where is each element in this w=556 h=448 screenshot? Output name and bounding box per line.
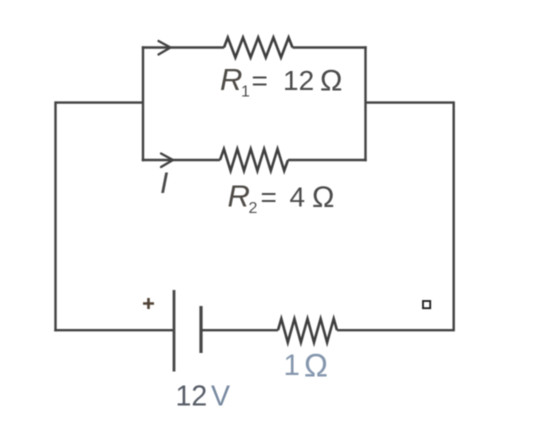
battery long plate (positive)	[173, 290, 176, 372]
svg-text:V: V	[211, 381, 230, 413]
wire: branch 1 left segment	[142, 46, 224, 48]
svg-text:12: 12	[176, 381, 208, 413]
current arrow on branch 1	[159, 41, 171, 55]
wire: top-left horizontal (node A to parallel-left rail)	[56, 101, 144, 103]
svg-text:2: 2	[249, 200, 258, 217]
label 12 V	[176, 381, 231, 413]
svg-text:1: 1	[284, 349, 300, 382]
svg-text:12: 12	[283, 65, 314, 96]
battery plus sign	[143, 298, 154, 309]
resistor R1 (zigzag)	[224, 38, 293, 58]
svg-text:R: R	[228, 179, 250, 214]
svg-text:=: =	[252, 65, 268, 96]
resistor 1 ohm (zigzag)	[278, 319, 337, 343]
wire: bottom-left segment (to battery)	[54, 329, 174, 331]
label R2 = 4 ohm	[228, 179, 335, 218]
current arrow on branch 2	[161, 154, 173, 168]
label R1 = 12 ohm	[220, 62, 342, 101]
node marker: small square	[423, 301, 430, 308]
svg-text:R: R	[220, 62, 242, 97]
resistor R2 (zigzag)	[220, 149, 288, 171]
wire: branch 1 right segment	[293, 46, 367, 48]
svg-text:1: 1	[241, 84, 250, 101]
wire: right outer vertical	[453, 101, 455, 331]
wire: parallel-section right vertical rail	[364, 46, 366, 161]
svg-text:Ω: Ω	[320, 65, 342, 98]
svg-text:I: I	[160, 167, 168, 200]
wire: top-right horizontal (parallel-right rail to node B)	[366, 101, 454, 103]
wire: branch 2 right segment	[288, 159, 367, 161]
wire: bottom-right segment	[337, 329, 453, 331]
wire: branch 2 left segment	[142, 159, 220, 161]
svg-text:4: 4	[290, 182, 306, 213]
wire: bottom-middle segment (battery to 1 ohm resistor)	[201, 329, 278, 331]
wire: left outer vertical	[54, 101, 56, 331]
wire: parallel-section left vertical rail	[142, 46, 144, 161]
battery short plate (negative)	[199, 306, 202, 353]
svg-text:=: =	[261, 182, 277, 213]
svg-text:Ω: Ω	[312, 181, 334, 214]
svg-text:Ω: Ω	[304, 348, 328, 384]
